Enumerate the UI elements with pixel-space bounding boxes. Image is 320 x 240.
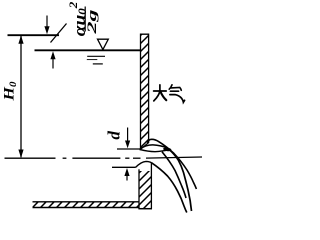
svg-text:2g: 2g bbox=[85, 9, 99, 35]
svg-text:d: d bbox=[105, 131, 124, 140]
svg-text:H0: H0 bbox=[1, 82, 18, 102]
